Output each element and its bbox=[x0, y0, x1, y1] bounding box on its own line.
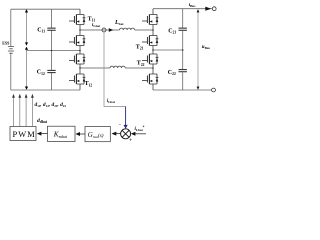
wire: feedback drop into summing node (blue) bbox=[125, 107, 127, 126]
i_Lbat current direction arrow bbox=[109, 28, 113, 32]
transistor left leg switch 2 bbox=[69, 36, 85, 46]
arrowhead into summing node (blue) bbox=[124, 125, 128, 129]
junction: right leg lower link node bbox=[152, 67, 154, 69]
capacitor C11 bbox=[47, 28, 55, 30]
junction: left capacitor midpoint node bbox=[51, 50, 53, 52]
capacitor C22 bbox=[179, 70, 187, 72]
wire: summing node to controller G bbox=[116, 133, 121, 135]
transistor right leg switch 4 bbox=[142, 74, 158, 84]
voltage annotation arrow u_Bus bbox=[197, 9, 200, 89]
inductor L_bat (upper) bbox=[120, 28, 135, 30]
arrowhead into K box bbox=[75, 132, 80, 136]
svg-text:d11, d12, d21, d22: d11, d12, d21, d22 bbox=[35, 102, 67, 108]
i_Bus current direction arrow bbox=[205, 7, 211, 11]
gate signal line d21 bbox=[25, 94, 28, 127]
wire: battery-side positive rail (top left) bbox=[11, 8, 80, 10]
svg-text:ddbat: ddbat bbox=[37, 118, 48, 124]
wire: upper link from left leg to inductor bbox=[80, 29, 120, 31]
svg-text:C22: C22 bbox=[168, 70, 176, 76]
gain block K_mbat bbox=[48, 126, 76, 141]
svg-text:+: + bbox=[129, 139, 132, 144]
gate signal line d11 bbox=[12, 94, 15, 127]
wire: G box to K box bbox=[79, 133, 85, 135]
battery ESS (cell plates) bbox=[8, 47, 14, 54]
transistor right leg switch 1 bbox=[142, 15, 158, 25]
junction: right leg midpoint node bbox=[152, 49, 154, 51]
junction: left leg lower link node bbox=[79, 67, 81, 69]
wire: upper link inductor to right leg bbox=[135, 29, 153, 31]
wire: DC-bus negative rail (bottom right) bbox=[153, 89, 212, 91]
svg-text:ESS: ESS bbox=[2, 40, 10, 45]
svg-text:iLbat: iLbat bbox=[107, 99, 116, 104]
wire: left leg vertical segments bbox=[79, 9, 81, 90]
svg-text:T11: T11 bbox=[88, 16, 96, 22]
svg-text:T12: T12 bbox=[85, 81, 93, 87]
controller block G_ibat(s) bbox=[85, 126, 110, 141]
PWM modulator block bbox=[10, 127, 36, 141]
arrowhead into controller G box bbox=[112, 132, 117, 136]
arrowhead reference into summing node bbox=[131, 132, 136, 136]
svg-text:Lbat: Lbat bbox=[114, 20, 124, 26]
transistor T12 (left leg switch 4) bbox=[69, 74, 85, 84]
gate signal line d12 bbox=[18, 94, 21, 127]
current sensor on upper link bbox=[102, 28, 106, 32]
svg-text:C21: C21 bbox=[168, 28, 176, 34]
transistor T11 (left leg switch 1) bbox=[69, 15, 85, 25]
junction: left leg upper link node bbox=[79, 29, 81, 31]
voltage annotation arrow u_C11 (upper double-headed arrow) bbox=[25, 9, 28, 45]
wire: current reference input bbox=[135, 133, 146, 135]
svg-text:T22: T22 bbox=[137, 61, 145, 67]
wire: lower link from left leg to inductor bbox=[80, 67, 110, 69]
wire: capacitor midpoint line to left leg midpoint bbox=[27, 50, 81, 52]
svg-text:uBus: uBus bbox=[202, 45, 211, 50]
svg-text:C12: C12 bbox=[37, 70, 45, 76]
capacitor C12 bbox=[47, 70, 55, 72]
wire: right leg vertical segments bbox=[152, 9, 154, 90]
junction: right leg upper link node bbox=[152, 29, 154, 31]
transistor T22 (right leg switch 3) bbox=[142, 54, 158, 64]
arrowhead into PWM box bbox=[37, 132, 42, 136]
wire: battery branch vertical bbox=[10, 9, 12, 90]
wire: DC-bus positive rail (top right) bbox=[153, 8, 212, 10]
wire: current feedback from sensor (grey elbow) bbox=[104, 32, 126, 107]
wire: lower link inductor to right leg bbox=[125, 67, 153, 69]
svg-text:C11: C11 bbox=[37, 27, 45, 33]
junction: right capacitor midpoint node bbox=[182, 49, 184, 51]
wire: battery-side negative rail (bottom left) bbox=[11, 89, 80, 91]
svg-text:iBus: iBus bbox=[189, 3, 196, 8]
transistor T21 (right leg switch 2) bbox=[142, 36, 158, 46]
summing node bbox=[121, 129, 131, 139]
wire: left capacitor branch vertical bbox=[51, 9, 53, 90]
wire: K box to PWM box bbox=[41, 133, 48, 135]
gate signal line d22 bbox=[31, 94, 34, 127]
DC-bus positive output terminal bbox=[212, 7, 216, 11]
junction: left leg midpoint node bbox=[79, 50, 81, 52]
DC-bus negative output terminal bbox=[212, 88, 216, 92]
wire: right leg midpoint to bus capacitor midpoint bbox=[153, 49, 183, 51]
svg-text:PWM: PWM bbox=[13, 130, 36, 139]
svg-text:iLbat*: iLbat* bbox=[135, 125, 145, 131]
voltage annotation arrow u_C12 (lower double-headed arrow) bbox=[25, 47, 28, 90]
svg-text:−: − bbox=[119, 122, 122, 127]
svg-text:iLbat: iLbat bbox=[92, 23, 101, 28]
capacitor C21 bbox=[179, 28, 187, 30]
inductor (lower link) bbox=[110, 66, 125, 68]
svg-text:T21: T21 bbox=[136, 44, 144, 50]
transistor left leg switch 3 bbox=[69, 54, 85, 64]
wire: right capacitor branch vertical bbox=[182, 9, 184, 90]
